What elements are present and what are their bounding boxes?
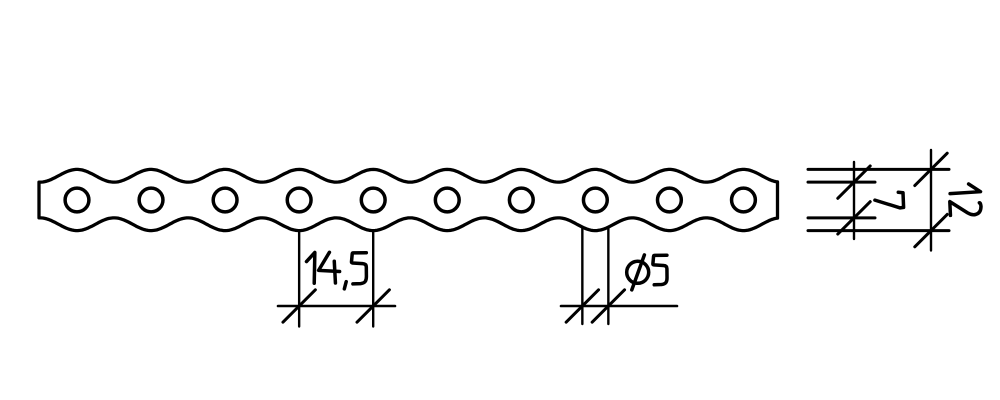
dimension line 7 [853, 162, 855, 239]
tick 14,5 right [357, 290, 389, 322]
tick 7 top [838, 166, 870, 198]
tick 12 top [915, 153, 947, 185]
tick dia5 right [592, 290, 624, 322]
hole 3 [213, 188, 237, 212]
tick 7 bottom [838, 202, 870, 234]
section outer top line [808, 168, 949, 171]
extension line dia5 left [581, 227, 583, 324]
dimension text 7 (rotated) [875, 192, 904, 208]
dimension text 12 (rotated) [950, 184, 981, 215]
hole 5 [361, 188, 385, 212]
hole 9 [658, 188, 682, 212]
hole 2 [139, 188, 163, 212]
dimension text 14,5 [307, 252, 367, 289]
strip outline [39, 169, 778, 230]
hole 8 [583, 188, 607, 212]
tick 12 bottom [915, 214, 947, 246]
hole 6 [435, 188, 459, 212]
section outer bottom line [808, 229, 949, 232]
hole 1 [65, 188, 89, 212]
hole 10 [732, 188, 756, 212]
section inner bottom line [808, 216, 875, 219]
hole 4 [287, 188, 311, 212]
dimension text dia5 [627, 255, 667, 290]
extension line dia5 right [607, 227, 609, 324]
dimension line 14,5 [278, 305, 395, 308]
section inner top line [808, 181, 875, 184]
tick dia5 left [566, 290, 598, 322]
tick 14,5 left [283, 290, 315, 322]
dimension line 12 [930, 150, 932, 251]
hole 7 [509, 188, 533, 212]
dimension line dia5 [561, 305, 677, 308]
extension line 14,5 left [298, 231, 300, 327]
extension line 14,5 right [372, 231, 374, 327]
